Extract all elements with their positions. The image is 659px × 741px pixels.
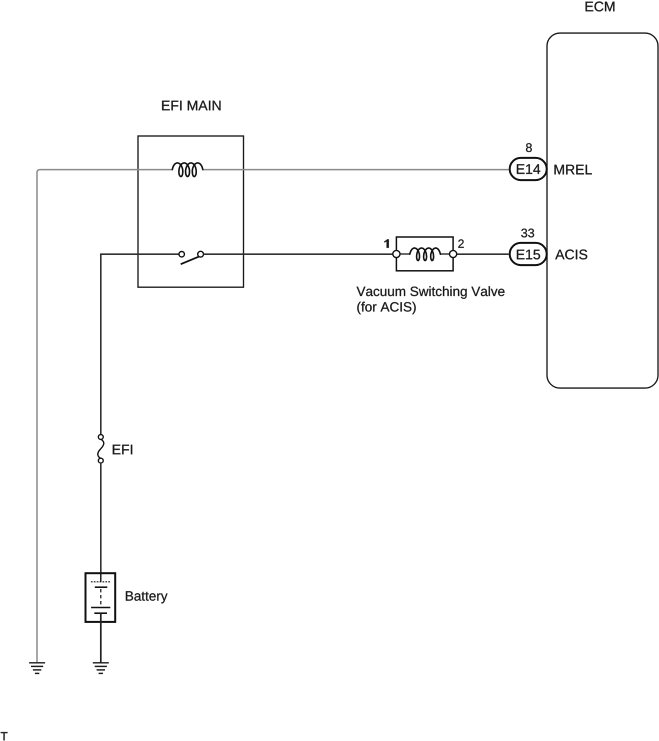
VSV terminal pin 2 xyxy=(450,250,457,257)
fuse EFI wiggle xyxy=(98,439,104,458)
wire inside VSV xyxy=(400,253,453,255)
fuse contact bottom xyxy=(98,458,103,463)
connector E15 xyxy=(510,243,547,265)
wire dark: VSV pin 2 to E15 xyxy=(457,253,509,255)
battery top lead xyxy=(100,572,102,582)
VSV box xyxy=(396,237,453,271)
label MREL xyxy=(555,165,592,175)
wire gray MREL: E14 to coil xyxy=(203,169,509,171)
label ECM xyxy=(586,2,615,12)
VSV coil xyxy=(410,248,441,261)
relay switch contact left xyxy=(179,252,184,257)
ground right (battery) xyxy=(93,663,109,674)
label (for ACIS) xyxy=(357,302,415,315)
wire dark: battery corner to switch xyxy=(101,254,179,434)
battery dashed center xyxy=(100,589,102,605)
battery box xyxy=(86,573,116,622)
wire dark: switch to VSV pin 1 xyxy=(204,253,393,255)
wire dark: fuse to battery xyxy=(100,463,102,572)
battery plate long dashed top xyxy=(91,581,110,583)
label EFI MAIN xyxy=(162,101,220,111)
battery plate short xyxy=(95,586,108,588)
fuse contact top xyxy=(98,435,103,440)
connector E14 xyxy=(510,158,547,180)
label EFI fuse xyxy=(113,445,132,455)
pin label 1 xyxy=(384,239,388,247)
label Vacuum Switching Valve xyxy=(357,286,505,299)
pin number 8 xyxy=(526,143,532,152)
footer mark T xyxy=(1,732,8,740)
battery plate long xyxy=(91,607,110,609)
relay switch contact right xyxy=(198,251,204,257)
ground left xyxy=(29,663,45,674)
pin number 33 xyxy=(521,229,534,238)
battery plate short bottom xyxy=(94,612,107,614)
wire gray left: coil to left vertical to ground xyxy=(37,170,172,663)
relay coil L1 xyxy=(172,163,203,177)
pin label 2 xyxy=(458,239,464,247)
VSV terminal pin 1 xyxy=(393,250,400,257)
label ACIS xyxy=(555,250,587,260)
relay EFI MAIN box xyxy=(138,136,244,287)
label Battery xyxy=(126,591,168,603)
battery bottom lead to ground xyxy=(100,613,102,663)
relay switch blade xyxy=(181,256,200,264)
ECM box U1 xyxy=(547,33,658,388)
